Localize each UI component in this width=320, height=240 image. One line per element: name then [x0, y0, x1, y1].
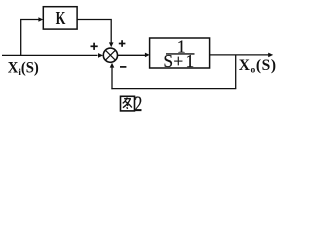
wire: branch up from input to K block [21, 20, 40, 56]
svg-text:2: 2 [134, 93, 142, 117]
wire: feedback up into summing junction [111, 67, 113, 90]
svg-text:S: S [163, 51, 173, 71]
svg-text:Xo(S): Xo(S) [239, 57, 277, 76]
minus sign at feedback input [120, 66, 126, 68]
svg-text:1: 1 [186, 51, 195, 71]
plus sign left of summing junction [91, 43, 98, 50]
value label: fraction bar [166, 53, 195, 55]
svg-text:Xi(S): Xi(S) [8, 60, 39, 78]
wire: output signal line [210, 54, 269, 56]
summing junction U1 [103, 48, 117, 62]
plus sign right of summing junction top [119, 40, 126, 47]
arrowhead into plant block [145, 53, 150, 58]
svg-text:+: + [173, 51, 183, 71]
svg-text:K: K [56, 9, 66, 29]
arrowhead into summing junction left [98, 53, 103, 58]
wire: feedback bottom run [111, 88, 236, 90]
arrowhead into K block [38, 17, 43, 22]
arrowhead up into summing junction bottom [110, 63, 115, 68]
wire: feedback tap down from output [235, 55, 237, 89]
wire: summing junction to plant block [118, 54, 146, 56]
caption: character 图 drawn as vector [121, 96, 135, 111]
wire: input signal line [2, 54, 98, 56]
arrowhead down into summing junction top [109, 42, 114, 47]
wire: K block output to summing junction top [77, 20, 111, 44]
arrowhead output end [268, 53, 273, 58]
block K (gain) [43, 7, 77, 29]
block 1/(S+1) (plant) [150, 36, 210, 71]
